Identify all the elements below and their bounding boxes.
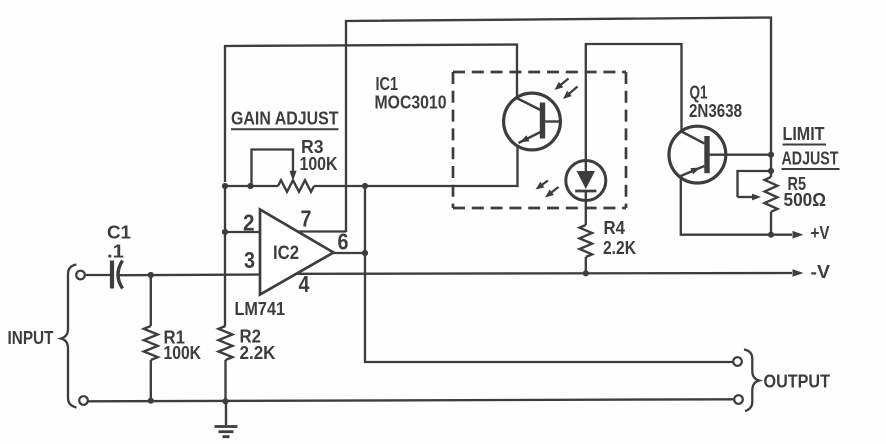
junction dot R4 on -V line [583,270,589,276]
wire: rail from LED anode to Q1 collector [586,44,682,171]
LED cathode bar [575,190,596,193]
wire: pin 2 lead [225,231,260,233]
wire: pin 7 lead [296,230,346,232]
svg-text:GAIN ADJUST: GAIN ADJUST [231,109,339,129]
INPUT brace [61,265,77,408]
wire: R5 bottom to +V junction [770,212,772,235]
wire: Q1 emitter down to +V line [681,178,771,235]
resistor R3 potentiometer [278,180,314,192]
svg-text:LM741: LM741 [235,299,286,319]
svg-text:2: 2 [243,210,255,236]
OUTPUT brace [744,350,759,412]
transistor Q1 - circle [669,126,726,183]
wire: -V line from pin 4 to right arrow [297,272,792,275]
wire: pin2 node vertical continues to R2 [224,186,226,326]
junction dot pin2 [222,229,228,235]
svg-text:4: 4 [299,271,310,297]
junction dot pin6 output [362,250,368,256]
wire: R4 bottom to -V line [585,257,587,274]
svg-text:MOC3010: MOC3010 [375,93,447,113]
LED triangle [577,171,595,189]
svg-text:+V: +V [811,223,830,243]
input terminal bottom [79,396,88,405]
wire: output column from feedback node down to output line [365,186,734,362]
junction dot R5 wiper tie [768,168,774,174]
Q1 base bar [704,136,709,173]
phototransistor emitter arrowhead [520,135,530,142]
svg-text:500Ω: 500Ω [784,190,827,210]
svg-text:R4: R4 [604,218,626,238]
svg-text:3: 3 [244,247,255,273]
svg-text:2.2K: 2.2K [603,238,636,258]
svg-text:C1: C1 [107,223,131,243]
svg-text:.1: .1 [107,242,124,262]
junction dot R5 bottom on +V line [768,232,774,238]
+V arrowhead [793,231,804,239]
LIMIT underline [783,144,827,146]
svg-text:Q1: Q1 [690,82,708,102]
svg-text:2.2K: 2.2K [240,343,276,363]
capacitor C1 [110,261,114,289]
Q1 collector stroke [681,131,705,143]
wire: outer top rail from op-amp pin7 riser to Q1 base column [346,18,771,233]
svg-text:6: 6 [338,229,349,255]
wire: ground bottom rail [88,399,735,401]
svg-text:IC2: IC2 [273,243,299,264]
svg-text:IC1: IC1 [376,74,399,94]
op-amp U1 IC2 triangle [260,210,334,295]
light arrow from LED 1 [541,181,548,186]
phototransistor collector stroke [517,98,541,110]
svg-text:100K: 100K [300,154,338,174]
junction dot pin3 node [148,272,154,278]
svg-text:7: 7 [301,206,312,232]
wire: C1 to pin 3 node [119,273,260,276]
resistor R1 [144,326,158,360]
light arrow from LED 2 [550,187,558,194]
svg-text:2N3638: 2N3638 [689,101,742,121]
Q1 emitter stroke [680,166,705,176]
GAIN ADJUST underline [231,128,339,130]
wire: R2 bottom to ground rail [224,360,226,402]
optocoupler IC1 dashed box [453,71,626,74]
junction dot R1 on ground rail [148,398,154,404]
svg-text:ADJUST: ADJUST [782,149,839,169]
resistor R2 [219,326,233,360]
R3 wiper loop [252,150,294,187]
wire: feedback line y=186 (pin2 node to phototransistor emitter) [225,146,518,187]
input terminal top [76,271,85,280]
phototransistor base stub [545,120,561,122]
light arrow into phototransistor 1 [560,79,569,86]
junction dot Q1 base / limit column [768,152,774,158]
wire: limit column base dot to R5 top [770,150,772,177]
svg-text:-V: -V [811,262,831,282]
resistor R4 [580,225,593,257]
wire: Q1 base lead to limit-adjust column [708,154,771,156]
resistor R5 potentiometer [765,177,778,212]
R3 wiper arrowhead [289,171,296,181]
svg-text:OUTPUT: OUTPUT [764,372,831,392]
phototransistor of IC1 - circle [504,93,561,150]
R5 wiper loop [738,171,772,197]
output terminal top [733,357,742,366]
phototransistor emitter stroke [519,132,541,143]
-V arrowhead [793,269,804,277]
output terminal bottom [734,395,743,404]
wire: input top lead to C1 [85,274,111,276]
junction dot R3 loop left [247,183,253,189]
phototransistor base bar [540,103,545,139]
svg-text:100K: 100K [164,343,202,363]
junction dot R2/ground on ground rail [222,398,228,404]
svg-text:LIMIT: LIMIT [783,124,825,144]
wire: R1 hanger from pin3 node [150,275,152,326]
LED of IC1 - circle [566,161,606,201]
wire: inner top rail (pin2 node to phototransistor collector) [225,45,517,183]
R5 wiper arrowhead [738,196,753,198]
wire: pin 6 output lead [333,252,365,254]
junction dot feedback/output column [362,183,368,189]
wire: +V line arrow shaft [771,234,792,236]
light arrow into phototransistor 2 [568,87,578,95]
ADJUST underline [782,168,840,170]
wire: R1 bottom to ground rail [150,360,152,402]
wire: LED cathode to R4 [585,191,587,225]
ground symbol [225,402,227,426]
svg-text:INPUT: INPUT [8,328,54,348]
junction dot feedback/pin2 column [222,183,228,189]
Q1 emitter arrowhead (PNP) [690,168,700,175]
